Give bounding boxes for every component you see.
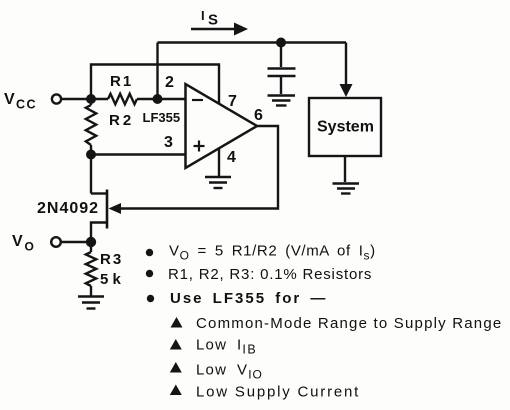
- resistor R3: [86, 242, 96, 296]
- svg-text:2: 2: [165, 74, 174, 91]
- current arrow IS: [191, 23, 248, 36]
- wire pin 4 to ground: [218, 149, 220, 177]
- System box: [309, 98, 381, 156]
- resistor R1: [91, 94, 158, 104]
- svg-text:R1, R2, R3: 0.1% Resistors: R1, R2, R3: 0.1% Resistors: [168, 266, 372, 283]
- wire VCC rail to pin7 (top horizontal): [91, 65, 219, 105]
- arrow into system box: [340, 84, 353, 97]
- bullet note use LF355: [147, 290, 328, 307]
- sub-bullet common-mode range: [171, 315, 503, 332]
- svg-text:V: V: [4, 91, 15, 108]
- resistor R2: [86, 99, 96, 155]
- node junction at non-inverting input: [86, 150, 96, 160]
- svg-text:System: System: [317, 119, 374, 136]
- svg-text:R1: R1: [110, 73, 133, 90]
- ground at R3: [78, 297, 104, 309]
- svg-text:2N4092: 2N4092: [37, 200, 99, 217]
- capacitor C1: [268, 43, 296, 95]
- sub-bullet low supply current: [170, 384, 360, 401]
- svg-text:CC: CC: [16, 98, 37, 112]
- svg-text:R3: R3: [100, 251, 123, 268]
- svg-text:V: V: [12, 233, 23, 250]
- ground at capacitor: [268, 96, 296, 106]
- svg-text:LF355: LF355: [143, 110, 181, 125]
- svg-text:6: 6: [254, 107, 263, 124]
- terminal VCC: [52, 94, 87, 103]
- sub-bullet low IB: [170, 337, 257, 357]
- svg-text:O: O: [25, 240, 34, 254]
- svg-text:7: 7: [228, 93, 237, 110]
- ground at system: [333, 184, 360, 194]
- svg-text:I: I: [201, 8, 205, 23]
- svg-text:R2: R2: [109, 112, 134, 129]
- wire op-amp output to gate line: [120, 126, 278, 209]
- svg-text:4: 4: [227, 149, 236, 166]
- node junction at IS rail over capacitor: [276, 38, 286, 48]
- svg-text:Use LF355 for —: Use LF355 for —: [170, 290, 327, 307]
- node junction at VO: [86, 237, 96, 247]
- svg-text:Common-Mode Range to Supply Ra: Common-Mode Range to Supply Range: [196, 315, 502, 332]
- node junction at VCC input: [86, 94, 96, 104]
- label VCC: [4, 91, 37, 112]
- wire IS rail to system arrow: [345, 43, 347, 87]
- svg-text:VO = 5 R1/R2 (V/mA of Is): VO = 5 R1/R2 (V/mA of Is): [169, 243, 376, 263]
- node junction at inverting input: [153, 94, 163, 104]
- current arrow IS label: [201, 8, 218, 29]
- transistor Q1 2N4092: [91, 155, 121, 243]
- bullet note resistors: [146, 266, 372, 283]
- bullet note VO equation: [146, 243, 376, 263]
- svg-text:3: 3: [164, 134, 173, 151]
- svg-text:S: S: [208, 12, 218, 29]
- op-amp U1 LF355: [186, 84, 258, 168]
- wire to op-amp inverting input: [158, 98, 186, 100]
- sub-bullet low VIO: [170, 362, 263, 382]
- wire system to ground: [344, 156, 346, 182]
- wire to op-amp non-inverting input: [91, 153, 185, 155]
- terminal VO: [51, 237, 87, 247]
- ground at pin 4: [205, 177, 231, 188]
- svg-text:Low Supply Current: Low Supply Current: [196, 384, 360, 401]
- wire IS top rail: [158, 41, 347, 43]
- wire from inverting node up to IS rail: [156, 43, 158, 100]
- svg-text:5 k: 5 k: [100, 271, 122, 288]
- label VO: [12, 233, 34, 254]
